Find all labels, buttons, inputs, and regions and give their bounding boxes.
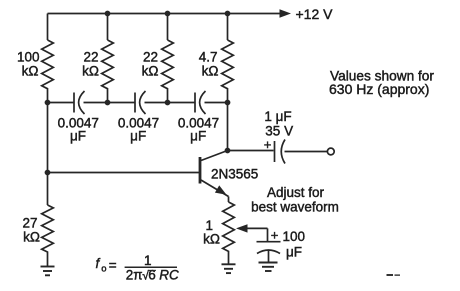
svg-text:1 μF: 1 μF: [264, 109, 291, 124]
transistor Q1 emitter lead: [201, 180, 229, 197]
svg-text:22: 22: [143, 50, 158, 65]
wire base: [48, 172, 200, 174]
svg-text:22: 22: [83, 50, 98, 65]
transistor Q1 2N3565 base bar: [199, 157, 202, 184]
node base junction: [45, 170, 51, 176]
wire cap row seg3: [145, 102, 195, 104]
node caprow-D: [225, 100, 231, 106]
transistor Q1 collector lead: [201, 151, 228, 161]
svg-text:o: o: [101, 264, 106, 275]
svg-text:630 Hz (approx): 630 Hz (approx): [329, 81, 429, 97]
capacitor C1 0.0047uF: [73, 93, 75, 113]
node caprow-B: [105, 100, 111, 106]
wire collector to C4: [228, 150, 274, 152]
node rail-R4: [225, 11, 231, 17]
+12V arrowhead: [280, 9, 292, 17]
svg-text:100: 100: [17, 50, 40, 65]
ground G2: [222, 263, 236, 265]
ground G3: [259, 262, 278, 264]
wire 27k top: [47, 173, 49, 206]
svg-text:kΩ: kΩ: [82, 64, 99, 79]
wire R1 top: [47, 14, 49, 41]
potentiometer R6 wiper wire: [244, 227, 268, 229]
wire C4 to output: [285, 151, 328, 153]
wire cap row seg1: [48, 102, 74, 104]
node caprow-C: [165, 100, 171, 106]
svg-text:2N3565: 2N3565: [211, 167, 258, 182]
svg-text:kΩ: kΩ: [142, 64, 159, 79]
transistor Q1 emitter arrowhead: [215, 185, 229, 198]
capacitor C5 curved plate: [257, 250, 280, 254]
wire R4 top: [227, 14, 229, 41]
capacitor C4 curved plate: [281, 140, 285, 164]
node collector: [225, 148, 231, 154]
svg-text:+12 V: +12 V: [296, 6, 334, 22]
wire wiper to C5: [267, 228, 269, 241]
wire cap row seg4: [205, 102, 228, 104]
ground G1: [41, 266, 55, 268]
resistor R4 4.7k: [222, 40, 234, 103]
svg-text:kΩ: kΩ: [22, 64, 39, 79]
svg-text:+: +: [271, 228, 279, 243]
wire R3 top: [167, 14, 169, 41]
wire cap row seg2: [84, 102, 135, 104]
svg-text:best waveform: best waveform: [251, 200, 339, 215]
svg-text:Adjust for: Adjust for: [267, 185, 325, 200]
wire C5 to ground: [268, 250, 270, 262]
wire emitter to pot: [228, 197, 230, 203]
svg-text:kΩ: kΩ: [202, 64, 219, 79]
wire R4 bottom to collector: [227, 103, 229, 151]
capacitor C4 1uF 35V plate+: [274, 141, 276, 162]
svg-text:+: +: [264, 137, 272, 152]
svg-text:1: 1: [144, 253, 152, 268]
svg-text:100: 100: [283, 229, 306, 244]
svg-text:RC: RC: [159, 268, 179, 283]
artifact dashes bottom right: [387, 274, 394, 276]
potentiometer R6 1k element: [223, 202, 235, 264]
node rail-R2: [105, 11, 111, 17]
svg-text:27: 27: [22, 216, 37, 231]
resistor R3 22k: [162, 40, 174, 103]
capacitor C5 100uF top plate: [257, 241, 281, 243]
svg-text:kΩ: kΩ: [23, 230, 40, 245]
potentiometer R6 wiper arrowhead: [236, 224, 248, 232]
wire +12V top rail: [48, 13, 282, 15]
svg-text:μF: μF: [70, 129, 86, 144]
svg-text:=: =: [109, 258, 117, 273]
formula fo = 1 / (2 pi sqrt6 RC): [96, 253, 180, 283]
svg-text:6: 6: [148, 268, 156, 283]
capacitor C2 0.0047uF: [134, 93, 136, 113]
node caprow-A: [45, 100, 51, 106]
output terminal circle: [327, 148, 334, 155]
svg-text:2π: 2π: [126, 268, 143, 283]
svg-text:kΩ: kΩ: [203, 231, 220, 246]
resistor R5 27k: [42, 205, 54, 266]
wire left branch down: [47, 103, 49, 173]
node rail-R3: [165, 11, 171, 17]
svg-text:μF: μF: [190, 129, 206, 144]
resistor R1 100k: [42, 40, 54, 103]
wire R2 top: [107, 14, 109, 41]
svg-text:4.7: 4.7: [199, 50, 218, 65]
capacitor C3 0.0047uF: [194, 93, 196, 113]
svg-text:μF: μF: [130, 129, 146, 144]
svg-text:μF: μF: [286, 245, 302, 260]
resistor R2 22k: [102, 40, 114, 103]
